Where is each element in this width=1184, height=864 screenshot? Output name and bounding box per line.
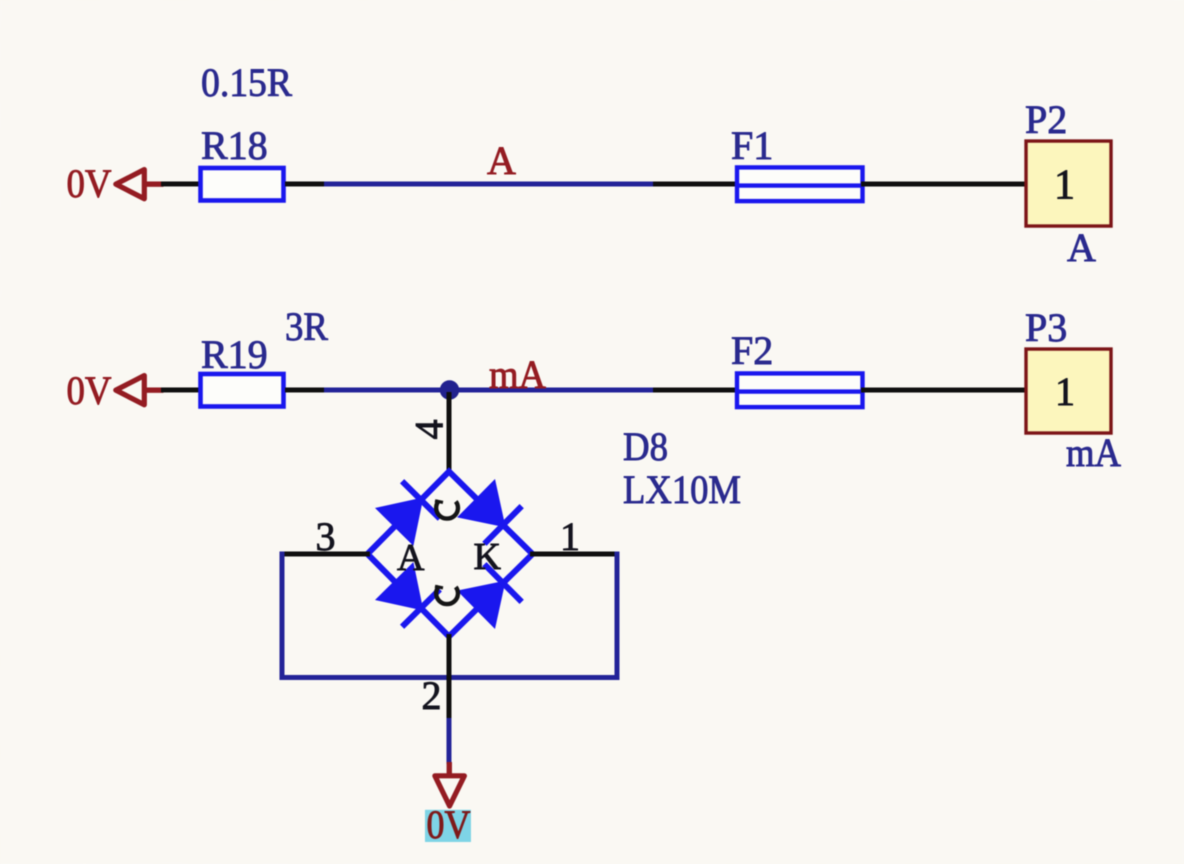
- svg-text:0V: 0V: [67, 368, 112, 413]
- svg-text:D8: D8: [623, 424, 668, 469]
- cyan highlight box: [425, 810, 471, 842]
- svg-text:4: 4: [406, 419, 451, 439]
- bridge rectifier D8 diamond outline: [367, 471, 532, 636]
- diode bottom-left (triangle): [375, 562, 423, 611]
- wire stub maroon (row 1): [144, 181, 163, 186]
- svg-text:mA: mA: [489, 352, 546, 397]
- wire black left of F2: [653, 387, 739, 392]
- diode bottom-right (triangle): [457, 581, 506, 629]
- wire black left of R18: [161, 181, 202, 186]
- power port arrow 0V (row 1): [116, 170, 145, 199]
- wire navy loop bottom horizontal: [279, 675, 619, 680]
- resistor R18: [201, 168, 284, 201]
- wire mA (navy, row 2): [324, 387, 655, 392]
- diode top-left (triangle): [375, 497, 423, 546]
- svg-text:R18: R18: [201, 123, 268, 168]
- wire A (navy, row 1): [324, 181, 655, 186]
- wire pin1 black (right vertex to loop): [530, 551, 617, 556]
- svg-text:3: 3: [315, 514, 335, 559]
- svg-text:A: A: [487, 138, 516, 183]
- svg-text:F2: F2: [731, 328, 773, 373]
- svg-text:3R: 3R: [285, 304, 328, 349]
- wire black right of F2: [861, 387, 1030, 392]
- wire stub maroon (bottom ground): [447, 762, 452, 776]
- diode top-right (triangle): [457, 479, 506, 527]
- svg-text:1: 1: [560, 514, 580, 559]
- svg-text:A: A: [397, 537, 425, 579]
- connector P2 box: [1026, 141, 1111, 226]
- svg-text:0V: 0V: [67, 161, 112, 206]
- svg-text:1: 1: [1054, 163, 1075, 209]
- diode bottom-left (cathode bar): [402, 589, 440, 626]
- wire navy down to ground: [446, 718, 451, 764]
- svg-text:mA: mA: [1066, 430, 1121, 475]
- svg-text:0V: 0V: [426, 802, 470, 847]
- wire black right of F1: [861, 181, 1030, 186]
- wire black left of F1: [653, 181, 739, 186]
- fuse F2: [737, 373, 863, 407]
- svg-text:P3: P3: [1025, 305, 1067, 350]
- AC mark bottom (~ rotated): [435, 586, 458, 604]
- diode bottom-right (cathode bar): [484, 564, 521, 602]
- svg-text:F1: F1: [731, 123, 773, 168]
- wire pin3 black (left vertex to loop): [282, 551, 370, 556]
- power port arrow 0V (bottom, pointing down): [435, 776, 465, 806]
- wire stub maroon (row 2): [144, 387, 163, 392]
- junction node: [440, 380, 459, 399]
- wire black left of R19: [161, 387, 202, 392]
- resistor R19: [201, 374, 284, 407]
- svg-text:P2: P2: [1025, 97, 1067, 142]
- wire pin4 black (junction to bridge top): [446, 392, 451, 474]
- svg-text:2: 2: [421, 673, 441, 718]
- wire navy loop right vertical: [614, 552, 619, 681]
- svg-text:LX10M: LX10M: [623, 467, 741, 512]
- svg-text:R19: R19: [201, 332, 268, 377]
- power port arrow 0V (row 2): [116, 376, 145, 405]
- wire black right of R18: [285, 181, 326, 186]
- svg-text:A: A: [1067, 225, 1096, 270]
- svg-text:K: K: [473, 536, 501, 578]
- svg-text:1: 1: [1055, 369, 1075, 414]
- wire navy loop left vertical: [279, 551, 284, 680]
- AC mark top (~ rotated): [435, 501, 458, 519]
- diode top-right (cathode bar): [484, 506, 521, 544]
- connector P3 box: [1026, 349, 1111, 433]
- diode top-left (cathode bar): [402, 481, 440, 518]
- wire pin2 black (bridge bottom down): [446, 634, 451, 718]
- wire black right of R19: [285, 387, 326, 392]
- svg-text:0.15R: 0.15R: [201, 60, 292, 105]
- fuse F1: [737, 167, 863, 201]
